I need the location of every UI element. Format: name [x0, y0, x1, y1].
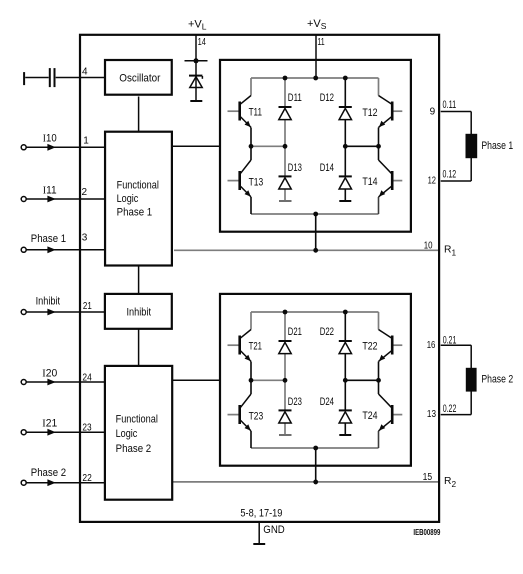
svg-text:Phase 1: Phase 1 — [117, 207, 153, 219]
svg-text:Logic: Logic — [117, 193, 139, 205]
svg-text:15: 15 — [423, 472, 433, 483]
svg-text:T13: T13 — [249, 176, 264, 188]
svg-text:Functional: Functional — [117, 179, 159, 191]
svg-text:Phase 2: Phase 2 — [31, 467, 66, 479]
svg-text:D24: D24 — [320, 396, 334, 408]
svg-text:D14: D14 — [320, 162, 334, 174]
svg-text:T24: T24 — [362, 410, 377, 422]
svg-text:D21: D21 — [288, 326, 302, 338]
svg-text:23: 23 — [82, 422, 92, 433]
svg-text:1: 1 — [83, 135, 89, 146]
svg-text:Inhibit: Inhibit — [36, 296, 61, 308]
svg-text:I11: I11 — [43, 184, 57, 196]
svg-text:Phase 1: Phase 1 — [31, 233, 66, 245]
svg-text:0.21: 0.21 — [443, 334, 457, 346]
svg-text:0.11: 0.11 — [443, 99, 457, 111]
svg-text:Phase 1: Phase 1 — [481, 140, 513, 152]
svg-text:4: 4 — [82, 67, 88, 78]
svg-text:T23: T23 — [249, 410, 264, 422]
svg-text:14: 14 — [198, 37, 207, 48]
svg-text:GND: GND — [263, 524, 285, 536]
svg-text:T21: T21 — [249, 340, 262, 352]
svg-text:I10: I10 — [43, 133, 57, 145]
svg-text:21: 21 — [83, 301, 92, 312]
svg-text:3: 3 — [82, 232, 88, 243]
svg-text:IEB00899: IEB00899 — [413, 527, 440, 537]
svg-text:I21: I21 — [42, 418, 57, 430]
svg-text:12: 12 — [428, 176, 437, 187]
svg-text:11: 11 — [317, 37, 325, 48]
svg-text:Phase 2: Phase 2 — [481, 374, 513, 386]
svg-text:D11: D11 — [288, 92, 302, 104]
svg-text:10: 10 — [424, 240, 433, 251]
svg-text:T14: T14 — [362, 176, 377, 188]
svg-text:Oscillator: Oscillator — [119, 73, 160, 85]
svg-text:5-8, 17-19: 5-8, 17-19 — [240, 507, 282, 519]
svg-text:D23: D23 — [288, 396, 302, 408]
svg-text:9: 9 — [430, 107, 436, 118]
svg-text:13: 13 — [427, 409, 436, 420]
svg-text:22: 22 — [82, 473, 92, 484]
svg-text:I20: I20 — [42, 368, 57, 380]
svg-text:Logic: Logic — [116, 428, 138, 440]
svg-text:24: 24 — [82, 373, 92, 384]
svg-text:Phase 2: Phase 2 — [116, 443, 152, 455]
svg-text:16: 16 — [427, 340, 436, 351]
svg-text:T22: T22 — [362, 341, 377, 353]
svg-text:D22: D22 — [320, 326, 334, 338]
svg-text:T12: T12 — [362, 107, 377, 119]
svg-text:D13: D13 — [288, 162, 302, 174]
svg-text:0.12: 0.12 — [443, 169, 457, 181]
svg-text:2: 2 — [82, 187, 88, 198]
svg-text:0.22: 0.22 — [443, 403, 457, 415]
svg-text:D12: D12 — [320, 92, 334, 104]
svg-text:T11: T11 — [249, 107, 262, 119]
svg-text:Functional: Functional — [116, 414, 158, 426]
svg-text:Inhibit: Inhibit — [127, 306, 152, 318]
